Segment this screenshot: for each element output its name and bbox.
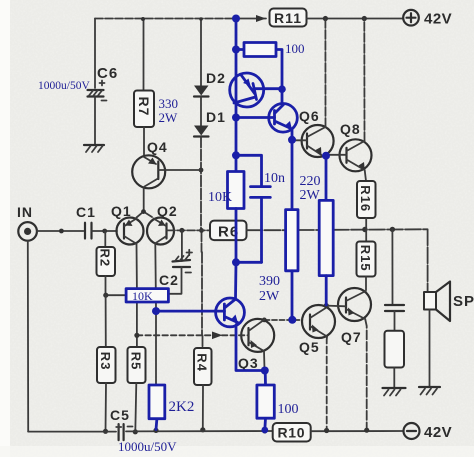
- wire Q6 emitter node to 220 right: [322, 152, 330, 201]
- wire D2 top lead: [199, 17, 203, 85]
- resistor R16: [357, 181, 376, 218]
- wire Q8 base from Q6 emitter node: [327, 154, 347, 156]
- transistor Q8: [340, 121, 372, 171]
- resistor R15: [357, 229, 376, 276]
- svg-text:10n: 10n: [264, 171, 285, 186]
- wire output line R6 to speaker corner: [247, 227, 428, 292]
- svg-text:Q2: Q2: [157, 203, 178, 219]
- svg-text:2W: 2W: [159, 110, 179, 125]
- svg-text:2K2: 2K2: [169, 399, 195, 415]
- wire Q5 base dashed from Q3: [262, 318, 302, 323]
- wire bottom rail left section: [28, 431, 116, 433]
- diode D1: [194, 109, 226, 137]
- ground zobel: [383, 388, 406, 396]
- wire top supply rail left section: [95, 18, 237, 20]
- wire top supply rail right section: [307, 18, 404, 20]
- svg-text:Q5: Q5: [299, 339, 320, 355]
- resistor R10: [273, 423, 311, 442]
- wire Q4 base to diode string: [158, 169, 201, 171]
- wire Q5 emitter to rail: [326, 337, 328, 431]
- resistor R7: [134, 91, 154, 128]
- node Q5 collector junction: [324, 303, 346, 308]
- wire R16 to output node: [365, 218, 367, 229]
- resistor R11: [270, 9, 307, 27]
- svg-text:R3: R3: [98, 352, 113, 371]
- svg-text:Q4: Q4: [147, 139, 168, 155]
- svg-text:C5: C5: [110, 407, 130, 423]
- transistor Q2: [147, 203, 178, 245]
- svg-text:R2: R2: [98, 249, 113, 268]
- transistor Q3: [238, 319, 274, 371]
- wire R7 to Q4: [143, 127, 145, 155]
- label 1000u/50V bottom: [118, 439, 177, 454]
- svg-text:C2: C2: [159, 272, 179, 288]
- svg-text:SP: SP: [453, 293, 474, 310]
- capacitor C6: [88, 65, 119, 101]
- label 220 2W: [300, 174, 321, 203]
- wire bottom rail right section: [311, 428, 404, 434]
- wire Q7 emitter to rail: [365, 319, 367, 430]
- wire blue VAS main line: [232, 15, 240, 172]
- wire IN shield down to bottom rail: [27, 241, 29, 432]
- wire D2 to D1: [200, 97, 202, 126]
- wire R4 to rail: [200, 385, 205, 432]
- wire R2 bottom to 10K preset: [103, 276, 126, 298]
- wire arrow into R11: [240, 15, 266, 22]
- svg-text:10K: 10K: [208, 190, 232, 205]
- power +42V terminal: [403, 10, 452, 28]
- resistor R3: [97, 347, 116, 383]
- svg-text:Q1: Q1: [111, 203, 132, 219]
- wire driver node to 220 left: [291, 140, 294, 210]
- transistor Q5: [299, 305, 335, 355]
- resistor R4: [194, 348, 212, 385]
- label 100 bottom: [278, 402, 299, 417]
- wire R7 top lead: [141, 17, 145, 90]
- svg-text:R15: R15: [358, 245, 373, 272]
- wire zobel cap to resistor: [394, 311, 396, 331]
- ground below C6: [84, 145, 104, 152]
- svg-text:C6: C6: [97, 65, 118, 82]
- svg-text:42V: 42V: [424, 424, 452, 441]
- capacitor C5: [110, 407, 133, 440]
- transistor Q4: [132, 139, 167, 188]
- resistor 2K2: [149, 385, 165, 430]
- capacitor 10n: [251, 187, 271, 263]
- wire B3 base from 10K preset node: [152, 307, 224, 315]
- capacitor C2: [159, 230, 192, 293]
- wire speaker to ground: [429, 310, 431, 388]
- wire Q1 emitter down to R5: [136, 244, 138, 348]
- label 2K2: [169, 399, 195, 415]
- diode D2: [194, 70, 226, 97]
- transistor B3 blue: [216, 298, 245, 327]
- svg-text:2W: 2W: [259, 289, 280, 304]
- svg-text:2W: 2W: [300, 188, 321, 203]
- wire Q2 down to 2K2: [155, 314, 157, 385]
- svg-text:1000u/50V: 1000u/50V: [118, 439, 177, 454]
- wire feedback dashed line to Q3 base: [134, 332, 248, 340]
- wire C1 to Q1 base: [92, 229, 118, 234]
- svg-text:R10: R10: [278, 425, 306, 441]
- svg-text:100: 100: [285, 41, 305, 56]
- wire D1 down to R6 node and R4: [199, 137, 204, 349]
- wire R15 to Q7 collector: [365, 277, 367, 291]
- wire C6 top lead: [94, 19, 96, 89]
- label 330 2W: [159, 96, 179, 125]
- svg-text:Q3: Q3: [238, 355, 259, 371]
- ground speaker: [419, 387, 440, 395]
- transistor Q7: [338, 288, 371, 345]
- wire R3 to rail: [103, 383, 108, 434]
- svg-text:D1: D1: [206, 109, 226, 125]
- svg-text:R16: R16: [358, 185, 373, 212]
- wire Q6 base from VAS node: [293, 139, 307, 141]
- svg-text:C1: C1: [76, 204, 96, 220]
- transistor B1 blue: [230, 73, 282, 107]
- resistor R2: [97, 231, 116, 276]
- resistor zobel: [385, 331, 405, 368]
- wire Q8 emitter to R16: [365, 170, 366, 181]
- svg-text:100: 100: [278, 402, 299, 417]
- svg-text:D2: D2: [206, 70, 226, 86]
- resistor 100 top: [236, 43, 286, 104]
- wire C6 bottom lead: [94, 97, 96, 146]
- wire Q4 emitter to Q1 Q2 split: [137, 188, 153, 217]
- resistor 220 right: [319, 200, 333, 305]
- resistor 10K preset blue box: [126, 289, 168, 303]
- svg-text:R11: R11: [274, 10, 302, 26]
- svg-text:1000u/50V: 1000u/50V: [38, 80, 90, 92]
- wire Q2 emitter down: [154, 244, 157, 309]
- svg-text:R4: R4: [195, 353, 210, 372]
- svg-text:42V: 42V: [424, 11, 452, 28]
- svg-text:Q6: Q6: [299, 108, 320, 124]
- capacitor C1: [76, 204, 96, 239]
- label 1000u/50V top: [38, 80, 90, 92]
- wire Q8 collector to rail: [363, 19, 365, 142]
- wire Q3 emitter down: [263, 351, 266, 369]
- wire Q2 base to R6: [167, 228, 210, 233]
- wire IN to C1: [37, 229, 84, 234]
- node junction rail x325: [323, 16, 328, 21]
- resistor 220 left: [286, 210, 298, 324]
- svg-text:Q7: Q7: [341, 329, 362, 345]
- svg-text:220: 220: [300, 174, 321, 189]
- label 10n: [264, 171, 285, 186]
- capacitor zobel: [385, 305, 404, 311]
- wire zobel from output node: [391, 229, 393, 303]
- speaker SP: [424, 282, 474, 322]
- node junction rail x364: [362, 16, 367, 21]
- label 390 2W: [259, 274, 280, 304]
- svg-text:390: 390: [259, 274, 280, 289]
- transistor B2 blue: [236, 104, 297, 133]
- wire zobel resistor to ground: [393, 368, 395, 389]
- svg-text:10K: 10K: [132, 289, 153, 303]
- wire R2 node down to R3: [105, 295, 107, 347]
- label 10K center: [208, 190, 232, 205]
- input terminal IN: [17, 204, 37, 241]
- resistor R6: [210, 221, 247, 241]
- wire Q6 collector to rail: [324, 19, 326, 128]
- svg-text:R7: R7: [136, 97, 152, 117]
- label 100 top: [285, 41, 305, 56]
- wire blue tap to 10n: [236, 155, 262, 185]
- resistor 10K center: [228, 172, 262, 267]
- svg-text:R5: R5: [129, 352, 144, 371]
- resistor 100 bottom: [257, 371, 274, 434]
- resistor R5: [128, 347, 146, 383]
- svg-text:330: 330: [159, 96, 179, 111]
- wire B3 emitter to 100 node: [236, 323, 269, 375]
- svg-text:Q8: Q8: [340, 121, 361, 137]
- wire bottom rail mid section: [126, 428, 273, 434]
- wire B2 emitter to driver node: [288, 129, 296, 144]
- transistor Q6: [299, 108, 334, 157]
- wire B3 collector lead: [234, 262, 237, 298]
- svg-text:IN: IN: [17, 204, 33, 220]
- wire R5 to rail: [133, 383, 138, 434]
- power -42V terminal: [404, 423, 453, 441]
- transistor Q1: [111, 203, 144, 245]
